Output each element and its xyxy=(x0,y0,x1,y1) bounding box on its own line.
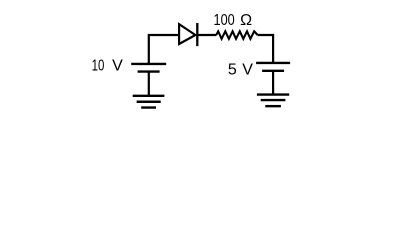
wire diode cathode to resistor R1 xyxy=(197,34,216,36)
diode D1 triangle xyxy=(179,24,195,44)
svg-text:Ω: Ω xyxy=(240,12,252,29)
svg-text:V: V xyxy=(112,57,123,74)
svg-text:100: 100 xyxy=(214,12,235,29)
battery V2 long plate (+) xyxy=(256,62,290,64)
wire from battery V1 plus terminal up and right to diode anode xyxy=(149,35,178,64)
svg-text:V: V xyxy=(242,62,253,79)
wire battery V2 minus terminal to ground xyxy=(272,71,274,95)
battery V1 long plate (+) xyxy=(131,63,166,65)
ground symbol left xyxy=(133,96,165,108)
wire battery V1 minus terminal to ground xyxy=(148,72,150,96)
wire resistor to corner and down to battery V2 plus terminal xyxy=(258,35,274,63)
diode D1 cathode bar xyxy=(196,23,198,46)
resistor R1 100 ohm zigzag xyxy=(216,31,257,39)
svg-text:5: 5 xyxy=(228,62,237,79)
svg-text:10: 10 xyxy=(92,57,105,74)
ground symbol right xyxy=(257,95,289,107)
battery V2 short plate (-) xyxy=(262,70,284,72)
battery V1 short plate (-) xyxy=(138,70,160,72)
